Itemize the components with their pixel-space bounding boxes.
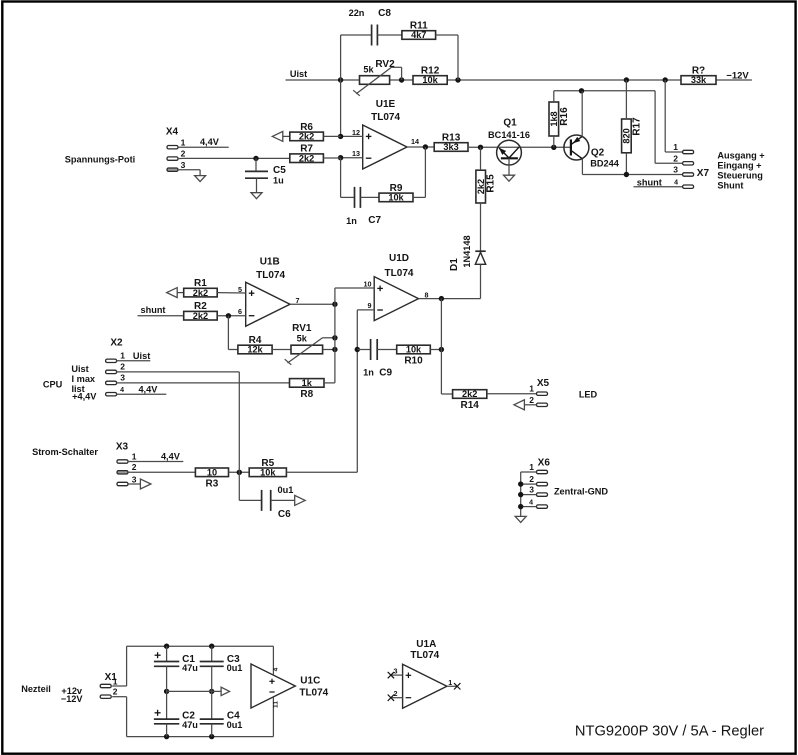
svg-text:1n: 1n [363, 368, 374, 378]
svg-text:22n: 22n [349, 8, 365, 18]
svg-text:R?: R? [692, 66, 705, 77]
svg-text:R8: R8 [300, 389, 313, 400]
svg-text:4,4V: 4,4V [161, 452, 181, 462]
svg-text:5k: 5k [297, 334, 308, 344]
svg-text:−12V: −12V [61, 694, 84, 704]
svg-text:47u: 47u [182, 663, 198, 673]
svg-text:10k: 10k [422, 75, 438, 85]
svg-text:1k8: 1k8 [549, 111, 559, 126]
svg-text:11: 11 [273, 701, 280, 708]
svg-text:1: 1 [181, 137, 186, 147]
svg-text:10k: 10k [388, 193, 404, 203]
svg-text:U1C: U1C [300, 676, 320, 687]
svg-text:BC141-16: BC141-16 [488, 130, 530, 140]
svg-text:3: 3 [132, 475, 137, 485]
svg-text:R14: R14 [461, 400, 480, 411]
svg-text:Eingang +: Eingang + [717, 161, 761, 171]
svg-text:4: 4 [674, 180, 678, 187]
svg-text:X3: X3 [116, 442, 129, 453]
svg-text:shunt: shunt [637, 177, 662, 187]
svg-text:6: 6 [238, 307, 242, 316]
svg-text:2: 2 [113, 687, 118, 697]
svg-text:RV2: RV2 [375, 59, 395, 70]
svg-text:4: 4 [273, 667, 280, 671]
svg-text:1: 1 [529, 462, 534, 472]
svg-text:2k2: 2k2 [193, 288, 208, 298]
svg-text:R17: R17 [631, 117, 642, 136]
svg-text:X6: X6 [538, 458, 551, 469]
svg-text:Uist: Uist [133, 351, 150, 361]
svg-text:Nezteil: Nezteil [21, 684, 51, 694]
svg-text:TL074: TL074 [410, 650, 439, 661]
svg-text:C8: C8 [378, 8, 391, 19]
svg-text:3: 3 [181, 160, 186, 170]
svg-text:R6: R6 [300, 122, 313, 133]
svg-text:R12: R12 [421, 66, 440, 77]
svg-text:R5: R5 [261, 458, 274, 469]
svg-text:820: 820 [622, 128, 632, 143]
svg-text:C5: C5 [273, 165, 286, 176]
svg-text:R15: R15 [486, 174, 497, 193]
svg-text:I max: I max [72, 374, 96, 384]
svg-text:13: 13 [352, 149, 360, 158]
svg-text:3: 3 [529, 484, 534, 494]
svg-text:X2: X2 [110, 338, 123, 349]
svg-text:2k2: 2k2 [462, 389, 477, 399]
svg-text:Uist: Uist [71, 364, 88, 374]
svg-text:4: 4 [120, 387, 124, 394]
svg-text:4: 4 [529, 500, 533, 507]
svg-text:10k: 10k [260, 468, 276, 478]
svg-text:3: 3 [394, 666, 398, 675]
svg-text:R7: R7 [300, 144, 313, 155]
svg-text:5k: 5k [363, 65, 374, 75]
svg-text:0u1: 0u1 [227, 720, 243, 730]
svg-text:14: 14 [411, 137, 419, 146]
svg-text:8: 8 [425, 291, 429, 300]
svg-text:0u1: 0u1 [227, 663, 243, 673]
svg-text:R16: R16 [559, 107, 570, 126]
svg-text:D1: D1 [449, 258, 460, 271]
svg-text:3k3: 3k3 [443, 142, 458, 152]
svg-text:1N4148: 1N4148 [462, 235, 472, 267]
svg-text:1: 1 [113, 677, 118, 687]
svg-text:33k: 33k [691, 75, 707, 85]
svg-text:Q2: Q2 [591, 147, 605, 158]
svg-text:2: 2 [673, 153, 678, 163]
svg-text:−12V: −12V [726, 70, 749, 81]
svg-text:R13: R13 [442, 133, 461, 144]
svg-text:CPU: CPU [43, 379, 63, 389]
svg-text:2: 2 [394, 689, 398, 698]
svg-text:12k: 12k [247, 345, 263, 355]
svg-text:R9: R9 [390, 183, 403, 194]
svg-text:7: 7 [296, 296, 300, 305]
svg-text:3: 3 [673, 165, 678, 175]
svg-text:9: 9 [368, 301, 372, 310]
svg-text:LED: LED [579, 389, 598, 399]
svg-text:2k2: 2k2 [299, 132, 314, 142]
svg-text:0u1: 0u1 [277, 485, 293, 495]
svg-text:U1B: U1B [260, 257, 280, 268]
svg-text:Uist: Uist [290, 69, 307, 79]
svg-text:R11: R11 [410, 21, 428, 32]
svg-text:2: 2 [181, 149, 186, 159]
svg-text:R10: R10 [404, 356, 423, 367]
svg-text:TL074: TL074 [256, 270, 285, 281]
svg-text:U1E: U1E [376, 99, 396, 110]
svg-text:BD244: BD244 [590, 159, 619, 169]
svg-text:C9: C9 [379, 368, 392, 379]
svg-text:1: 1 [120, 351, 125, 361]
svg-text:U1D: U1D [389, 253, 409, 264]
svg-text:Q1: Q1 [503, 118, 517, 129]
svg-text:1: 1 [448, 678, 452, 687]
svg-text:3: 3 [120, 373, 125, 383]
svg-text:Zentral-GND: Zentral-GND [554, 486, 608, 496]
svg-text:TL074: TL074 [299, 687, 328, 698]
svg-text:1k: 1k [302, 378, 313, 388]
svg-text:10: 10 [364, 279, 372, 288]
svg-text:TL074: TL074 [371, 112, 400, 123]
svg-text:1u: 1u [273, 176, 284, 186]
svg-text:10k: 10k [406, 345, 422, 355]
svg-text:+4,4V: +4,4V [72, 391, 97, 401]
svg-text:2: 2 [120, 362, 125, 372]
svg-text:C7: C7 [368, 215, 381, 226]
svg-text:X5: X5 [537, 378, 550, 389]
svg-text:U1A: U1A [416, 639, 436, 650]
svg-text:shunt: shunt [140, 305, 165, 315]
svg-text:X4: X4 [166, 127, 179, 138]
svg-text:NTG9200P 30V / 5A - Regler: NTG9200P 30V / 5A - Regler [575, 723, 764, 739]
svg-text:1: 1 [673, 142, 678, 152]
svg-text:47u: 47u [182, 720, 198, 730]
svg-text:1n: 1n [346, 216, 357, 226]
svg-text:10: 10 [207, 468, 217, 478]
svg-text:Shunt: Shunt [717, 181, 743, 191]
svg-text:Spannungs-Poti: Spannungs-Poti [65, 154, 135, 164]
svg-text:4,4V: 4,4V [200, 137, 220, 147]
svg-text:R3: R3 [206, 478, 219, 489]
svg-text:1: 1 [132, 451, 137, 461]
svg-text:2k2: 2k2 [299, 153, 314, 163]
svg-text:2k2: 2k2 [476, 179, 486, 194]
svg-text:12: 12 [352, 128, 360, 137]
svg-text:Steuerung: Steuerung [717, 171, 762, 181]
svg-text:4k7: 4k7 [411, 30, 426, 40]
svg-text:1: 1 [529, 384, 534, 394]
svg-text:TL074: TL074 [385, 268, 414, 279]
svg-text:C6: C6 [278, 509, 291, 520]
svg-text:2: 2 [529, 474, 534, 484]
svg-text:RV1: RV1 [292, 323, 312, 334]
svg-text:4,4V: 4,4V [138, 384, 158, 394]
svg-text:Strom-Schalter: Strom-Schalter [32, 447, 98, 457]
svg-text:R4: R4 [249, 335, 262, 346]
svg-text:R1: R1 [194, 278, 207, 289]
svg-text:2: 2 [132, 462, 137, 472]
svg-text:R2: R2 [194, 301, 207, 312]
svg-text:X7: X7 [697, 168, 710, 179]
svg-text:Ausgang +: Ausgang + [717, 151, 764, 161]
svg-text:2k2: 2k2 [193, 311, 208, 321]
svg-text:2: 2 [529, 395, 534, 405]
